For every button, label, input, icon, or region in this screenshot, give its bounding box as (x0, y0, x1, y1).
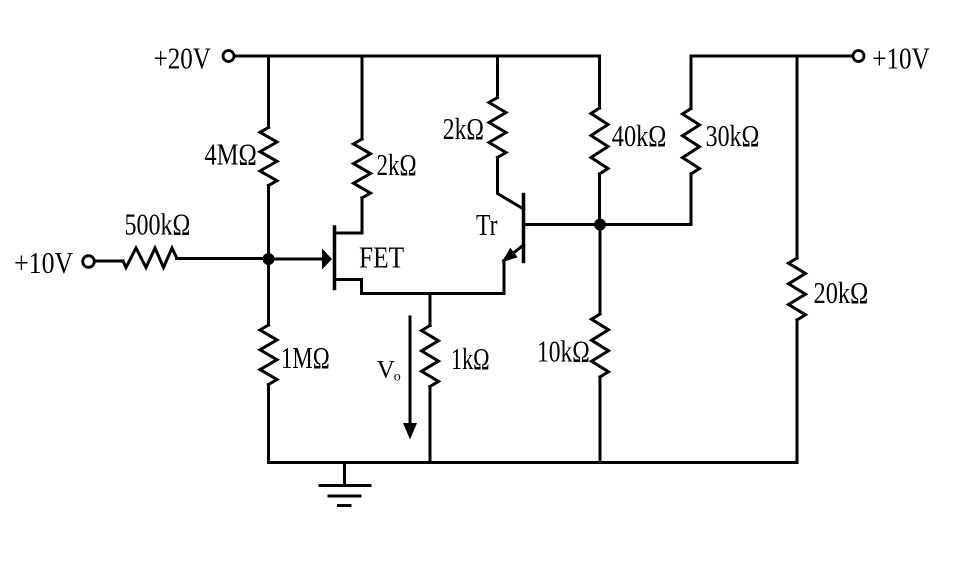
svg-text:Tr: Tr (476, 207, 498, 242)
wire R8 bottom to ground rail (267, 385, 270, 463)
node A (263, 253, 275, 265)
resistor R4 40kΩ (591, 108, 608, 174)
wire source line to R9 top (429, 294, 432, 326)
svg-text:4MΩ: 4MΩ (204, 137, 256, 172)
wire R1 bottom to node A to R8 top (267, 186, 270, 326)
wire R9 bottom to ground rail (429, 387, 432, 463)
transistor Q2 Tr (502, 195, 524, 294)
wire rail to R3 top (496, 56, 499, 98)
wire rail to R1 top (267, 56, 270, 128)
svg-text:1kΩ: 1kΩ (451, 341, 490, 376)
wire R5 bottom to base line (690, 174, 693, 225)
wire R3 bottom to Q2 collector (498, 158, 524, 210)
svg-text:40kΩ: 40kΩ (612, 118, 667, 153)
transistor Q1 FET (322, 227, 362, 294)
resistor R8 1MΩ (260, 325, 277, 385)
svg-text:V: V (377, 356, 395, 383)
wire R10 bottom to ground rail (599, 377, 602, 463)
resistor R7 500kΩ (123, 248, 177, 268)
svg-text:10kΩ: 10kΩ (537, 334, 590, 369)
resistor R2 2kΩ (354, 139, 371, 198)
node B (594, 219, 606, 231)
svg-text:o: o (394, 370, 401, 385)
wire R2 bottom to FET drain (361, 198, 364, 233)
svg-text:+10V: +10V (872, 41, 930, 76)
svg-text:+20V: +20V (154, 41, 212, 76)
svg-text:+10V: +10V (14, 245, 74, 280)
wire Q2 base to node B to R5 branch (524, 223, 692, 226)
arrow Vo output (403, 317, 417, 440)
resistor R6 20kΩ (789, 258, 806, 320)
svg-text:20kΩ: 20kΩ (814, 275, 869, 310)
terminal +10V right (853, 51, 864, 62)
wire R7 to node A (177, 257, 269, 260)
terminal +10V left (83, 256, 95, 268)
wire +10V rail to R6 top (796, 56, 799, 258)
wire input terminal to R7 (95, 260, 124, 263)
resistor R1 4MΩ (260, 128, 277, 186)
wire bottom ground rail (269, 461, 798, 464)
svg-text:500kΩ: 500kΩ (125, 207, 191, 242)
wire node B to R10 top (599, 225, 602, 315)
svg-text:2kΩ: 2kΩ (443, 111, 484, 146)
svg-text:2kΩ: 2kΩ (377, 147, 417, 182)
resistor R9 1kΩ (422, 326, 439, 387)
wire rail corner to R5 top (690, 56, 693, 109)
wire top rail +10V (691, 55, 853, 58)
wire R4 bottom to node B (598, 174, 601, 225)
terminal +20V (223, 51, 234, 62)
svg-text:30kΩ: 30kΩ (706, 118, 760, 153)
svg-text:FET: FET (359, 240, 404, 275)
wire rail to R2 top (361, 56, 364, 139)
wire top rail +20V (235, 55, 600, 58)
ground (320, 463, 370, 506)
wire FET source line (362, 292, 504, 295)
wire R6 bottom to ground rail (796, 320, 799, 463)
svg-text:1MΩ: 1MΩ (281, 340, 330, 375)
wire rail corner to R4 top (598, 56, 601, 108)
wire node A to FET gate (269, 258, 324, 261)
resistor R5 30kΩ (683, 109, 700, 175)
resistor R10 10kΩ (592, 314, 609, 377)
resistor R3 2kΩ (489, 98, 506, 158)
